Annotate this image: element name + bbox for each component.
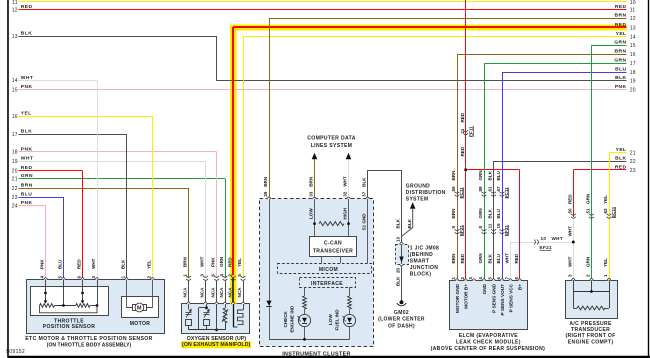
svg-text:RED: RED bbox=[460, 146, 465, 156]
svg-text:18: 18 bbox=[630, 70, 636, 76]
svg-text:(ON EXHAUST MANIFOLD): (ON EXHAUST MANIFOLD) bbox=[182, 342, 251, 348]
svg-text:COMPUTER DATA: COMPUTER DATA bbox=[307, 135, 356, 141]
svg-text:GRN: GRN bbox=[478, 253, 483, 264]
svg-text:RED: RED bbox=[615, 164, 627, 170]
svg-text:WHT: WHT bbox=[21, 75, 34, 81]
svg-text:WHT: WHT bbox=[21, 156, 34, 162]
svg-text:3: 3 bbox=[91, 276, 96, 279]
svg-text:17: 17 bbox=[630, 61, 636, 67]
svg-text:GRN: GRN bbox=[614, 40, 626, 46]
svg-text:RED: RED bbox=[460, 253, 465, 263]
svg-text:LINES SYSTEM: LINES SYSTEM bbox=[311, 143, 353, 149]
svg-text:BLU: BLU bbox=[58, 259, 63, 269]
svg-text:16: 16 bbox=[630, 52, 636, 58]
svg-text:NCA: NCA bbox=[183, 287, 188, 298]
svg-text:BLK: BLK bbox=[21, 129, 32, 135]
svg-text:4: 4 bbox=[40, 276, 45, 279]
svg-text:BLK: BLK bbox=[396, 276, 401, 286]
svg-text:51: 51 bbox=[586, 208, 591, 214]
svg-text:LEAK CHECK MODULE): LEAK CHECK MODULE) bbox=[456, 340, 521, 346]
svg-text:1: 1 bbox=[451, 277, 456, 280]
svg-text:RED: RED bbox=[615, 22, 627, 28]
svg-text:BLOCK): BLOCK) bbox=[410, 271, 432, 277]
svg-text:10: 10 bbox=[541, 236, 547, 241]
svg-text:WHT: WHT bbox=[567, 226, 572, 237]
svg-text:21: 21 bbox=[12, 177, 18, 183]
svg-text:JUNCTION: JUNCTION bbox=[410, 265, 438, 271]
svg-text:18: 18 bbox=[12, 150, 18, 156]
svg-text:B+: B+ bbox=[518, 284, 523, 290]
svg-text:509152: 509152 bbox=[6, 349, 25, 355]
svg-text:33: 33 bbox=[309, 191, 314, 197]
svg-text:20: 20 bbox=[630, 88, 636, 94]
svg-text:NCA: NCA bbox=[237, 287, 242, 298]
svg-text:12: 12 bbox=[12, 7, 18, 13]
svg-text:NCA: NCA bbox=[200, 287, 205, 298]
svg-text:BLK: BLK bbox=[121, 259, 126, 269]
svg-text:13: 13 bbox=[396, 236, 401, 242]
svg-text:1: 1 bbox=[121, 276, 126, 279]
svg-text:DISTRIBUTION: DISTRIBUTION bbox=[406, 190, 446, 196]
svg-text:(BEHIND: (BEHIND bbox=[410, 252, 433, 258]
svg-text:GROUND: GROUND bbox=[406, 183, 430, 189]
svg-text:ELCM (EVAPORATIVE: ELCM (EVAPORATIVE bbox=[459, 333, 518, 339]
svg-text:EC11: EC11 bbox=[459, 187, 464, 199]
svg-text:BRN: BRN bbox=[309, 176, 314, 187]
svg-text:WHT: WHT bbox=[552, 236, 564, 241]
svg-text:9: 9 bbox=[451, 226, 456, 229]
svg-text:17: 17 bbox=[12, 132, 18, 138]
svg-text:RED: RED bbox=[227, 257, 232, 267]
svg-text:BLU: BLU bbox=[496, 170, 501, 180]
svg-text:23: 23 bbox=[630, 168, 636, 174]
svg-text:TRANSCEIVER: TRANSCEIVER bbox=[313, 248, 353, 254]
svg-text:BRN: BRN bbox=[183, 256, 188, 267]
svg-text:SMART: SMART bbox=[410, 258, 430, 264]
svg-text:WHT: WHT bbox=[200, 256, 205, 267]
svg-text:PNK: PNK bbox=[21, 84, 33, 90]
svg-text:16: 16 bbox=[12, 114, 18, 120]
svg-text:BRN: BRN bbox=[451, 253, 456, 264]
svg-text:3: 3 bbox=[468, 277, 473, 280]
svg-text:12: 12 bbox=[630, 16, 636, 22]
svg-text:2: 2 bbox=[147, 276, 152, 279]
svg-text:19: 19 bbox=[630, 79, 636, 85]
svg-text:88: 88 bbox=[478, 186, 483, 192]
svg-text:P SENS VCC: P SENS VCC bbox=[508, 283, 513, 312]
svg-text:ENGINE COMPT): ENGINE COMPT) bbox=[568, 339, 614, 345]
svg-text:GRN: GRN bbox=[478, 170, 483, 181]
svg-text:BLK: BLK bbox=[407, 218, 412, 228]
svg-text:8: 8 bbox=[514, 277, 519, 280]
svg-text:GRN: GRN bbox=[478, 208, 483, 219]
svg-text:RED: RED bbox=[77, 259, 82, 269]
svg-text:4: 4 bbox=[478, 277, 483, 280]
svg-text:BRN: BRN bbox=[451, 170, 456, 181]
svg-text:BRN: BRN bbox=[21, 183, 33, 189]
svg-text:LOW: LOW bbox=[328, 314, 333, 325]
svg-text:BLK: BLK bbox=[21, 31, 32, 37]
svg-text:EF11: EF11 bbox=[469, 126, 474, 137]
svg-text:BLK: BLK bbox=[396, 218, 401, 228]
svg-text:1: 1 bbox=[603, 274, 608, 277]
svg-text:BLK: BLK bbox=[615, 156, 626, 162]
svg-text:20: 20 bbox=[12, 168, 18, 174]
svg-text:PNK: PNK bbox=[21, 146, 33, 152]
svg-text:37: 37 bbox=[362, 191, 367, 197]
svg-text:YEL: YEL bbox=[147, 260, 152, 269]
svg-text:EC11: EC11 bbox=[504, 187, 509, 199]
svg-text:11: 11 bbox=[630, 8, 636, 14]
svg-text:PNK: PNK bbox=[40, 259, 45, 269]
svg-text:PNK: PNK bbox=[615, 84, 627, 90]
svg-text:GRN: GRN bbox=[614, 58, 626, 64]
svg-text:BLU: BLU bbox=[496, 208, 501, 218]
svg-text:BLK: BLK bbox=[362, 177, 367, 187]
svg-text:WHT: WHT bbox=[567, 256, 572, 267]
svg-text:11: 11 bbox=[488, 223, 493, 228]
svg-text:20: 20 bbox=[396, 267, 401, 273]
svg-text:P SENS GND: P SENS GND bbox=[492, 283, 497, 312]
svg-text:(ABOVE CENTER OF REAR SUSPENSI: (ABOVE CENTER OF REAR SUSPENSION) bbox=[431, 346, 546, 352]
svg-text:5: 5 bbox=[58, 276, 63, 279]
svg-text:YEL: YEL bbox=[616, 31, 627, 37]
svg-text:OF DASH): OF DASH) bbox=[388, 323, 415, 329]
svg-text:(ON THROTTLE BODY ASSEMBLY): (ON THROTTLE BODY ASSEMBLY) bbox=[47, 343, 132, 349]
svg-text:INTERFACE: INTERFACE bbox=[311, 281, 343, 287]
svg-text:8: 8 bbox=[478, 226, 483, 229]
svg-text:13: 13 bbox=[630, 25, 636, 31]
svg-text:WHT: WHT bbox=[505, 253, 510, 264]
svg-text:WHT: WHT bbox=[343, 176, 348, 187]
svg-text:67: 67 bbox=[496, 186, 501, 192]
svg-text:M: M bbox=[137, 306, 142, 312]
svg-text:GRN: GRN bbox=[586, 256, 591, 267]
svg-text:BRN: BRN bbox=[451, 208, 456, 219]
svg-text:62: 62 bbox=[603, 208, 608, 214]
svg-text:BRN: BRN bbox=[615, 49, 627, 55]
svg-text:WHT: WHT bbox=[91, 258, 96, 269]
svg-text:BLK: BLK bbox=[488, 208, 493, 218]
svg-text:6: 6 bbox=[77, 276, 82, 279]
svg-text:ETC MOTOR & THROTTLE POSITION: ETC MOTOR & THROTTLE POSITION SENSOR bbox=[25, 336, 153, 342]
svg-text:23: 23 bbox=[12, 195, 18, 201]
svg-text:89: 89 bbox=[451, 186, 456, 192]
svg-text:15: 15 bbox=[12, 87, 18, 93]
svg-text:BLU: BLU bbox=[21, 192, 32, 198]
svg-text:3: 3 bbox=[567, 274, 572, 277]
svg-text:6: 6 bbox=[496, 277, 501, 280]
svg-text:32: 32 bbox=[343, 191, 348, 197]
svg-text:FUEL IND: FUEL IND bbox=[334, 309, 339, 331]
svg-text:2: 2 bbox=[586, 274, 591, 277]
svg-text:S1 GND: S1 GND bbox=[362, 213, 367, 231]
svg-text:RED: RED bbox=[21, 165, 33, 171]
svg-text:2: 2 bbox=[460, 277, 465, 280]
svg-text:19: 19 bbox=[12, 159, 18, 165]
svg-text:GRN: GRN bbox=[21, 173, 33, 179]
svg-text:BRN: BRN bbox=[615, 13, 627, 19]
svg-text:RED: RED bbox=[460, 112, 465, 122]
svg-text:13: 13 bbox=[12, 34, 18, 40]
svg-text:BLU: BLU bbox=[615, 67, 626, 73]
svg-text:SYSTEM: SYSTEM bbox=[406, 197, 429, 203]
svg-text:ENGINE IND: ENGINE IND bbox=[289, 305, 294, 332]
svg-text:10: 10 bbox=[630, 0, 636, 6]
svg-text:BLU: BLU bbox=[496, 253, 501, 263]
svg-text:NCA: NCA bbox=[219, 287, 224, 298]
svg-text:YEL: YEL bbox=[616, 147, 627, 153]
svg-text:BRN: BRN bbox=[263, 176, 268, 187]
svg-text:BLK: BLK bbox=[615, 75, 626, 81]
svg-text:EC11: EC11 bbox=[611, 206, 616, 218]
svg-text:CHECK: CHECK bbox=[283, 310, 288, 327]
svg-text:61: 61 bbox=[488, 186, 493, 192]
svg-text:RED: RED bbox=[567, 194, 572, 204]
svg-text:LOW: LOW bbox=[309, 208, 314, 219]
svg-text:MOTOR B+: MOTOR B+ bbox=[464, 284, 469, 309]
svg-text:22: 22 bbox=[12, 186, 18, 192]
svg-text:14: 14 bbox=[630, 35, 636, 41]
svg-text:39: 39 bbox=[263, 191, 268, 197]
svg-text:1 J/C JM08: 1 J/C JM08 bbox=[410, 245, 439, 251]
svg-text:(LOWER CENTER: (LOWER CENTER bbox=[378, 317, 425, 323]
svg-text:BLK: BLK bbox=[488, 253, 493, 263]
svg-text:GM02: GM02 bbox=[394, 310, 409, 316]
svg-text:MICOM: MICOM bbox=[319, 267, 338, 273]
svg-text:EF21: EF21 bbox=[540, 245, 552, 250]
svg-text:POSITION SENSOR: POSITION SENSOR bbox=[43, 324, 96, 330]
svg-text:24: 24 bbox=[12, 203, 18, 209]
svg-text:NCA: NCA bbox=[211, 287, 216, 298]
svg-text:22: 22 bbox=[630, 159, 636, 165]
svg-text:HIGH: HIGH bbox=[343, 207, 348, 219]
svg-text:MOTOR: MOTOR bbox=[130, 321, 151, 327]
svg-text:RED: RED bbox=[615, 4, 627, 10]
svg-text:50: 50 bbox=[567, 208, 572, 214]
svg-text:P SENS VOUT: P SENS VOUT bbox=[500, 284, 505, 316]
svg-text:15: 15 bbox=[630, 43, 636, 49]
svg-text:21: 21 bbox=[630, 151, 636, 157]
svg-text:RED: RED bbox=[21, 4, 33, 10]
svg-text:YEL: YEL bbox=[237, 258, 242, 267]
svg-text:YEL: YEL bbox=[21, 111, 32, 117]
svg-text:EF21: EF21 bbox=[459, 225, 464, 236]
svg-text:PNK: PNK bbox=[211, 257, 216, 267]
svg-text:5: 5 bbox=[488, 277, 493, 280]
svg-text:TRANSDUCER: TRANSDUCER bbox=[571, 327, 610, 333]
svg-text:BLK: BLK bbox=[488, 170, 493, 180]
svg-text:GND: GND bbox=[482, 283, 487, 294]
svg-text:19: 19 bbox=[496, 223, 501, 229]
svg-text:PNK: PNK bbox=[21, 200, 33, 206]
svg-text:YEL: YEL bbox=[603, 195, 608, 204]
svg-text:(RIGHT FRONT OF: (RIGHT FRONT OF bbox=[565, 333, 615, 339]
svg-text:EF21: EF21 bbox=[504, 225, 509, 236]
svg-text:YEL: YEL bbox=[603, 258, 608, 267]
svg-text:C-CAN: C-CAN bbox=[324, 241, 342, 247]
svg-text:RED: RED bbox=[514, 253, 519, 263]
svg-text:GRN: GRN bbox=[586, 193, 591, 204]
svg-text:14: 14 bbox=[12, 78, 18, 84]
svg-text:NCA: NCA bbox=[227, 287, 232, 298]
svg-text:7: 7 bbox=[505, 277, 510, 280]
svg-text:MOTOR GND: MOTOR GND bbox=[455, 283, 460, 313]
svg-text:11: 11 bbox=[12, 0, 18, 6]
svg-text:GRN: GRN bbox=[219, 256, 224, 267]
